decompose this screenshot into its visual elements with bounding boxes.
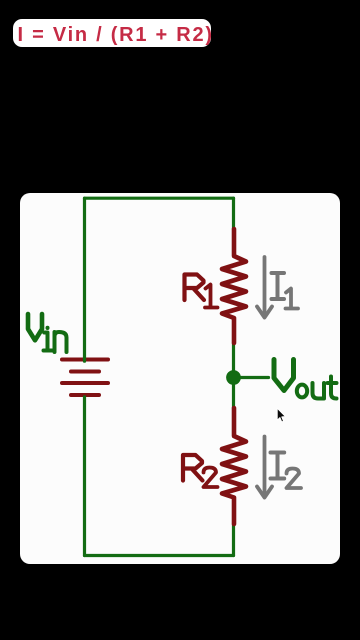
wire left lower [83, 397, 86, 556]
resistor R1 [222, 229, 246, 343]
label R1 [185, 275, 218, 308]
wire stub to Vout [234, 376, 269, 379]
wire right top [232, 198, 235, 229]
label I2 [271, 453, 302, 489]
formula title [13, 19, 211, 47]
wire left upper [83, 198, 86, 361]
wire top [85, 197, 234, 200]
mouse cursor [277, 408, 285, 422]
schematic panel [20, 193, 341, 564]
resistor R2 [222, 408, 246, 524]
current arrow I2 [257, 437, 272, 498]
label Vin [28, 314, 67, 352]
label Vout [274, 360, 337, 399]
label R2 [183, 455, 218, 487]
wire above node [232, 343, 235, 378]
wire bottom [85, 554, 234, 557]
wire below node [232, 378, 235, 409]
node Vout junction [226, 370, 241, 385]
battery V1 plates [62, 360, 108, 396]
label I1 [272, 273, 299, 309]
wire below R2 [232, 524, 235, 556]
current arrow I1 [257, 257, 272, 318]
